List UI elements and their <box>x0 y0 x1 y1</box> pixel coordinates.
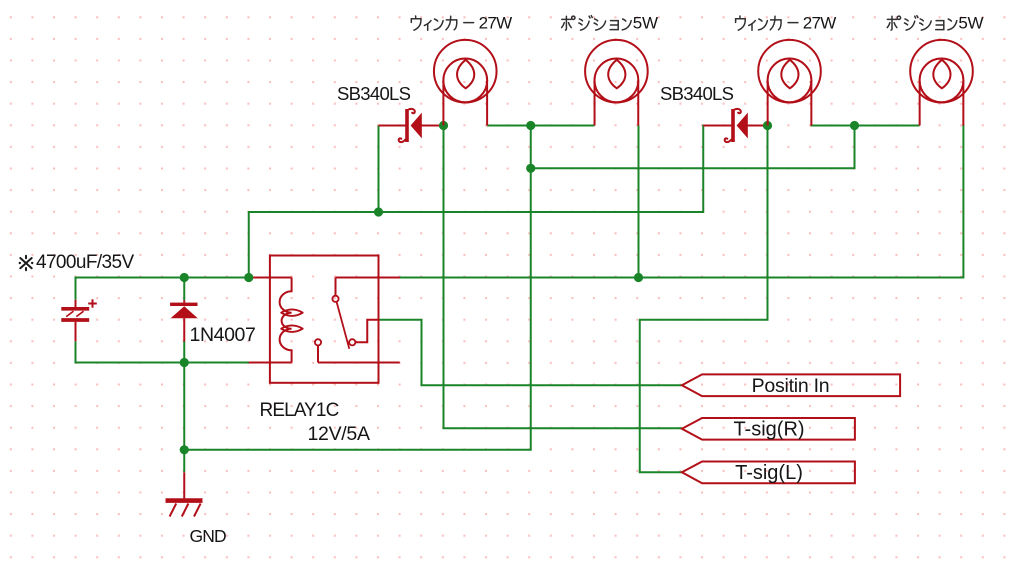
svg-text:4700uF/35V: 4700uF/35V <box>36 252 134 273</box>
svg-text:T-sig(R): T-sig(R) <box>733 418 804 440</box>
svg-text:SB340LS: SB340LS <box>660 83 734 104</box>
svg-text:27W: 27W <box>479 13 513 32</box>
svg-text:T-sig(L): T-sig(L) <box>735 462 803 484</box>
svg-text:5W: 5W <box>633 13 658 32</box>
svg-text:SB340LS: SB340LS <box>337 83 411 104</box>
svg-text:GND: GND <box>190 526 226 546</box>
svg-text:RELAY1C: RELAY1C <box>260 400 339 421</box>
svg-text:27W: 27W <box>803 13 837 32</box>
svg-text:12V/5A: 12V/5A <box>308 423 370 445</box>
svg-text:Positin In: Positin In <box>752 375 830 397</box>
svg-text:5W: 5W <box>958 13 983 32</box>
svg-text:1N4007: 1N4007 <box>190 324 256 346</box>
